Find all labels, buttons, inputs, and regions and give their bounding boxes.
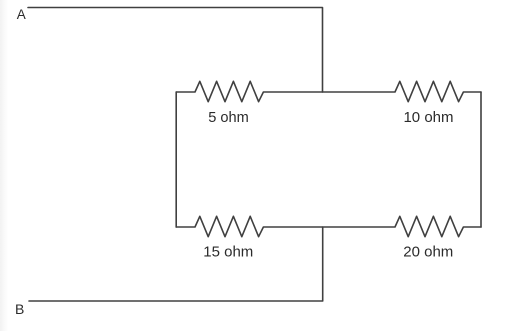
svg-text:10 ohm: 10 ohm — [403, 109, 453, 126]
svg-text:A: A — [17, 7, 26, 22]
svg-text:5 ohm: 5 ohm — [208, 110, 249, 126]
svg-text:15 ohm: 15 ohm — [203, 244, 253, 261]
svg-text:20 ohm: 20 ohm — [403, 244, 453, 261]
svg-text:B: B — [15, 301, 24, 317]
